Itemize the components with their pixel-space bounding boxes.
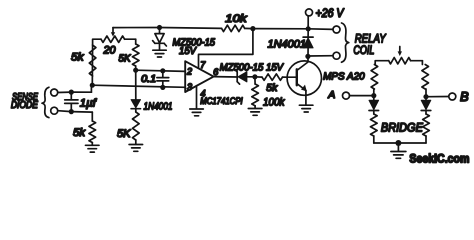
svg-text:3: 3	[187, 82, 192, 92]
svg-text:1N4001: 1N4001	[144, 101, 173, 113]
svg-text:7: 7	[200, 60, 206, 70]
svg-text:1µf: 1µf	[80, 97, 97, 109]
svg-text:5K: 5K	[117, 128, 131, 140]
svg-text:5k: 5k	[266, 83, 278, 94]
svg-text:SeekIC.com: SeekIC.com	[409, 153, 469, 165]
svg-text:B: B	[460, 89, 469, 104]
svg-text:MZ500-15 15V: MZ500-15 15V	[220, 62, 285, 73]
svg-text:5k: 5k	[71, 52, 84, 64]
svg-text:10k: 10k	[225, 13, 247, 25]
svg-text:DIODE: DIODE	[11, 99, 39, 111]
svg-text:A: A	[327, 89, 335, 101]
svg-text:5k: 5k	[73, 127, 86, 139]
svg-text:2: 2	[186, 67, 192, 77]
svg-text:MC1741CPI: MC1741CPI	[200, 96, 243, 106]
svg-text:4: 4	[201, 89, 206, 99]
svg-text:COIL: COIL	[353, 43, 374, 57]
svg-text:1N4001: 1N4001	[268, 39, 307, 51]
svg-text:5K: 5K	[119, 54, 132, 65]
svg-text:+26 V: +26 V	[316, 8, 345, 20]
svg-text:MPS A20: MPS A20	[323, 70, 365, 82]
svg-text:100k: 100k	[263, 96, 285, 108]
svg-text:15V: 15V	[179, 46, 197, 57]
svg-text:20: 20	[103, 45, 117, 57]
svg-text:BRIDGE: BRIDGE	[381, 120, 424, 134]
svg-text:6: 6	[213, 67, 218, 77]
svg-text:0.1: 0.1	[141, 74, 156, 85]
